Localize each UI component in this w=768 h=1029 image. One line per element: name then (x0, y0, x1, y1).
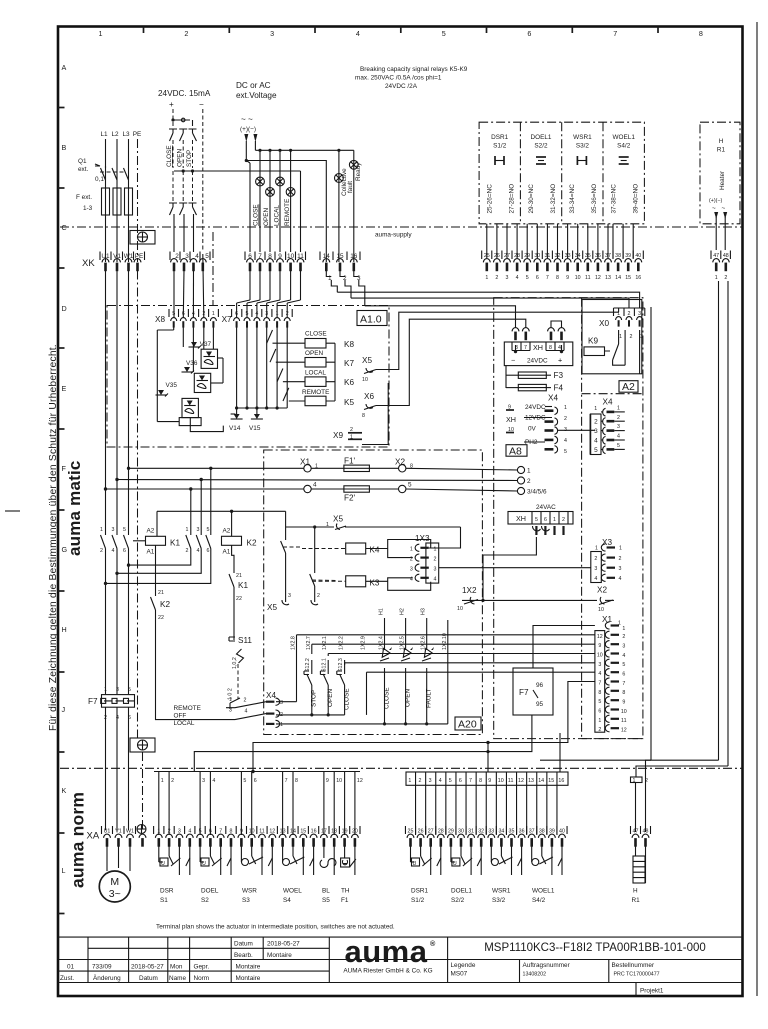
svg-text:L2: L2 (111, 131, 119, 138)
lamp LOCAL (276, 177, 285, 186)
svg-text:5: 5 (207, 527, 210, 533)
blinker BL S5 (320, 846, 336, 904)
svg-text:+: + (169, 100, 174, 109)
svg-text:A8: A8 (509, 445, 522, 457)
svg-text:S5: S5 (322, 897, 330, 904)
svg-text:10: 10 (621, 709, 627, 715)
svg-text:2: 2 (171, 778, 174, 784)
thermo TH F1 (341, 846, 356, 904)
separator line matic/norm (60, 767, 743, 769)
wire L1 (105, 139, 107, 262)
svg-text:R1: R1 (632, 897, 641, 904)
svg-text:Bearb.: Bearb. (234, 952, 253, 959)
wire X6 to XH7 (376, 319, 526, 405)
svg-text:29-30=NC: 29-30=NC (528, 184, 535, 214)
svg-text:8: 8 (556, 275, 559, 281)
XA terminals 25-40 (408, 829, 565, 835)
svg-text:DOEL1: DOEL1 (531, 134, 552, 141)
svg-text:6: 6 (598, 709, 601, 715)
svg-text:~ ~: ~ ~ (241, 115, 253, 124)
X9 exit wire (362, 383, 388, 445)
svg-text:Q1: Q1 (78, 158, 87, 165)
svg-text:1X2.8: 1X2.8 (291, 636, 297, 650)
svg-text:7: 7 (598, 681, 601, 687)
svg-text:2: 2 (317, 593, 320, 599)
motor M3~ (106, 846, 108, 871)
svg-text:V36: V36 (186, 360, 198, 367)
svg-text:3: 3 (116, 687, 119, 693)
svg-text:REMOTE: REMOTE (284, 199, 291, 226)
svg-text:6: 6 (527, 29, 531, 38)
svg-text:733/09: 733/09 (92, 963, 112, 970)
svg-text:S4/2: S4/2 (617, 143, 631, 150)
svg-text:S12.3: S12.3 (338, 658, 344, 672)
svg-text:9: 9 (598, 643, 601, 649)
svg-text:8: 8 (598, 690, 601, 696)
svg-text:MSP1110KC3--F18I2 TPA00R1BB-10: MSP1110KC3--F18I2 TPA00R1BB-101-000 (484, 942, 706, 954)
svg-text:OPEN: OPEN (177, 149, 184, 167)
svg-text:1: 1 (617, 406, 620, 412)
svg-text:F4: F4 (554, 384, 564, 393)
svg-text:13: 13 (528, 778, 534, 784)
svg-text:8: 8 (295, 778, 298, 784)
svg-text:auma norm: auma norm (68, 792, 88, 888)
title block row texts (60, 941, 300, 982)
svg-text:4: 4 (617, 434, 620, 440)
svg-text:31-32=NO: 31-32=NO (550, 184, 557, 214)
K2 contact rejoin wires (106, 549, 211, 584)
svg-text:6: 6 (123, 548, 126, 554)
heater wires down (718, 281, 720, 760)
svg-text:7: 7 (285, 778, 288, 784)
svg-text:1: 1 (564, 405, 567, 411)
relay coil K3 (346, 576, 366, 587)
fan wires to X1 (297, 635, 595, 672)
svg-text:X4: X4 (548, 394, 558, 403)
heater channel box (631, 777, 643, 783)
svg-text:F7: F7 (519, 688, 529, 697)
svg-text:B: B (62, 143, 67, 152)
limit switch WOEL S4 (283, 846, 314, 904)
XK terminals 6-11 (248, 253, 304, 260)
svg-text:6: 6 (536, 275, 539, 281)
arrow feeds (244, 134, 248, 142)
svg-text:S12.2: S12.2 (305, 658, 311, 672)
svg-text:Ready: Ready (355, 162, 362, 181)
svg-text:K1: K1 (238, 581, 248, 590)
svg-text:U: U (202, 861, 206, 867)
wire L2 (116, 139, 118, 262)
auma-supply separator line (60, 226, 743, 228)
lamp Ready (353, 150, 355, 262)
svg-text:3: 3 (429, 778, 432, 784)
svg-text:4: 4 (598, 671, 601, 677)
internal section divider dash-dot (212, 232, 214, 305)
wire + dashed (172, 109, 174, 120)
svg-text:33-34=NC: 33-34=NC (569, 184, 576, 214)
svg-text:9: 9 (566, 275, 569, 281)
svg-text:1: 1 (104, 687, 107, 693)
svg-text:15: 15 (548, 778, 554, 784)
limit switch WSR1 S3/2 (491, 846, 521, 904)
svg-text:REMOTE: REMOTE (174, 705, 201, 712)
svg-text:F3: F3 (554, 371, 564, 380)
svg-text:WOEL1: WOEL1 (532, 888, 555, 895)
svg-text:Mon: Mon (170, 963, 183, 970)
svg-text:WOEL1: WOEL1 (613, 134, 636, 141)
svg-text:1: 1 (619, 334, 622, 340)
svg-text:6: 6 (622, 672, 625, 678)
svg-text:U: U (413, 861, 417, 867)
svg-text:fault: fault (347, 181, 354, 193)
svg-text:X9: X9 (333, 431, 343, 440)
svg-text:1: 1 (280, 722, 283, 728)
wire 16 to XH pin3 (365, 306, 516, 328)
svg-text:F ext.: F ext. (76, 194, 92, 201)
svg-text:H2: H2 (400, 608, 406, 615)
X5 bottom contacts (285, 527, 287, 540)
svg-text:CLOSE: CLOSE (166, 145, 173, 167)
svg-text:2: 2 (434, 557, 437, 563)
limit switch WOEL1 S4/2 (532, 846, 562, 904)
fuse F3 (505, 366, 507, 388)
svg-text:2: 2 (594, 419, 598, 426)
svg-text:1-3: 1-3 (83, 205, 93, 212)
svg-text:4: 4 (439, 778, 442, 784)
svg-text:V15: V15 (249, 425, 261, 432)
svg-text:4: 4 (434, 577, 437, 583)
PE dash-dot down (137, 271, 139, 741)
svg-text:K2: K2 (160, 600, 170, 609)
limit switch DSR1 S1/2 (411, 846, 441, 904)
lamp bus 1 (255, 149, 353, 151)
svg-text:9: 9 (488, 778, 491, 784)
svg-text:9: 9 (622, 700, 625, 706)
svg-text:2018-05-27: 2018-05-27 (267, 941, 300, 948)
svg-text:DSR1: DSR1 (491, 134, 508, 141)
svg-text:LOCAL: LOCAL (174, 720, 195, 727)
svg-text:Datum: Datum (139, 975, 158, 982)
svg-text:22: 22 (158, 615, 164, 621)
svg-text:1: 1 (99, 29, 103, 38)
svg-text:1: 1 (527, 468, 531, 475)
svg-text:REMOTE: REMOTE (302, 389, 329, 396)
svg-text:1X2.7: 1X2.7 (306, 636, 312, 650)
svg-text:7: 7 (613, 29, 617, 38)
svg-text:D: D (62, 304, 67, 313)
A2 dash-dot region (494, 298, 643, 739)
wire 1X2 to X2 (478, 599, 597, 601)
svg-text:Zust.: Zust. (60, 975, 74, 982)
svg-text:TH: TH (341, 888, 350, 895)
channel box right group (406, 772, 568, 785)
svg-text:OPEN: OPEN (327, 689, 334, 707)
svg-text:1X2.9: 1X2.9 (361, 636, 367, 650)
svg-text:2: 2 (564, 416, 567, 422)
svg-text:K3: K3 (369, 579, 379, 588)
K4/K3 wiring to 1X3 (366, 540, 431, 558)
svg-text:F7: F7 (88, 697, 98, 706)
svg-text:4: 4 (594, 576, 597, 582)
svg-text:LOCAL: LOCAL (274, 205, 281, 226)
svg-text:1: 1 (619, 546, 622, 552)
outer sheet edge right (756, 22, 758, 996)
svg-text:5: 5 (449, 778, 452, 784)
ground box above norm separator (130, 738, 155, 752)
wires from relay boxes to terminals 25-40 (487, 224, 633, 258)
svg-text:2018-05-27: 2018-05-27 (131, 963, 164, 970)
24VAC output circles (517, 466, 524, 473)
riser 1X2.6 H3 (426, 618, 428, 650)
svg-text:S12.1: S12.1 (321, 658, 327, 672)
svg-text:S2: S2 (201, 897, 209, 904)
svg-text:10: 10 (498, 778, 504, 784)
wire 8 feed from above (485, 772, 487, 785)
svg-text:DSR1: DSR1 (411, 888, 428, 895)
svg-text:2: 2 (724, 275, 727, 281)
svg-text:auma: auma (345, 934, 428, 969)
contactor K1 main contacts (100, 527, 126, 554)
svg-text:12: 12 (597, 634, 603, 640)
svg-text:3: 3 (594, 428, 598, 435)
svg-text:21: 21 (236, 573, 242, 579)
svg-text:2: 2 (598, 727, 601, 733)
svg-text:5: 5 (205, 253, 209, 260)
svg-text:3: 3 (617, 424, 620, 430)
riser 1X2.4 H1 (384, 618, 386, 650)
wires XK 2-5 down into X8 (174, 254, 204, 318)
svg-text:Norm: Norm (194, 975, 210, 982)
limit switch DOEL S2 (200, 846, 231, 904)
svg-text:39-40=NO: 39-40=NO (632, 184, 639, 214)
svg-text:1X2.1: 1X2.1 (322, 636, 328, 650)
svg-text:U: U (161, 861, 165, 867)
svg-text:2: 2 (622, 634, 625, 640)
svg-text:3: 3 (112, 527, 115, 533)
svg-text:8: 8 (362, 413, 365, 419)
lamp REMOTE (286, 188, 295, 197)
svg-text:4: 4 (516, 275, 519, 281)
svg-text:8: 8 (479, 778, 482, 784)
svg-text:X2: X2 (597, 586, 607, 595)
wires XK 6-11 down into X7 (237, 271, 301, 319)
svg-text:X4: X4 (603, 398, 613, 407)
limit switch DSR S1 (159, 846, 190, 904)
svg-text:7: 7 (469, 778, 472, 784)
signal relay boxes DSR1/DOEL1/WSR1/WOEL1 (479, 122, 644, 224)
svg-text:V37: V37 (200, 341, 212, 348)
svg-text:ext.: ext. (78, 166, 89, 173)
phase wires below contacts (106, 549, 129, 695)
svg-text:Montaire: Montaire (236, 975, 261, 982)
left margin mark (5, 510, 20, 512)
svg-text:13: 13 (605, 275, 611, 281)
svg-text:5: 5 (622, 662, 625, 668)
svg-text:1: 1 (485, 275, 488, 281)
svg-text:A: A (62, 63, 67, 72)
lamp wires 6-11 (246, 161, 250, 164)
XA labels U1 V1 W1 PE (104, 829, 134, 835)
X1 row7 wire (253, 682, 595, 773)
svg-text:2: 2 (630, 334, 633, 340)
svg-text:Für diese Zeichnung gelten die: Für diese Zeichnung gelten die Bestimmun… (48, 344, 59, 731)
title block grid (58, 936, 743, 938)
svg-text:25-26=NC: 25-26=NC (487, 184, 494, 214)
heater wires elbow (636, 766, 728, 777)
svg-text:37-38=NC: 37-38=NC (610, 184, 617, 214)
svg-text:XH: XH (533, 343, 543, 352)
svg-text:A2: A2 (622, 381, 635, 393)
svg-text:16: 16 (635, 275, 641, 281)
svg-text:S3: S3 (242, 897, 250, 904)
svg-text:1: 1 (598, 718, 601, 724)
svg-text:10: 10 (457, 606, 463, 612)
svg-text:M: M (110, 876, 119, 888)
channel top rail left (154, 771, 360, 773)
XA terminals 47 48 (633, 829, 649, 835)
svg-text:MS07: MS07 (451, 971, 468, 978)
svg-text:3: 3 (598, 662, 601, 668)
heater terminals 47 48 (713, 253, 729, 259)
svg-text:K7: K7 (344, 359, 354, 368)
svg-text:6: 6 (544, 517, 547, 523)
svg-text:WSR1: WSR1 (492, 888, 511, 895)
svg-text:27-28=NO: 27-28=NO (509, 184, 516, 214)
svg-text:K5: K5 (344, 398, 354, 407)
svg-text:H: H (62, 625, 67, 634)
V3x interconnect wires (157, 328, 223, 432)
XK right terminals 25-40 (484, 253, 641, 259)
svg-text:K: K (62, 786, 67, 795)
bus row2 (115, 478, 118, 481)
top column ticks (144, 27, 659, 34)
svg-text:K2: K2 (247, 539, 257, 548)
row labels (62, 63, 68, 875)
LED bus (276, 723, 448, 725)
svg-text:CLOSE: CLOSE (253, 204, 260, 226)
XK 14-16 bottom numbers 1 2 3 with bracket wires (328, 275, 361, 282)
svg-text:21: 21 (158, 590, 164, 596)
lamp bus 2 to terminal 14 (245, 159, 248, 162)
svg-text:S1/2: S1/2 (493, 143, 507, 150)
svg-text:1: 1 (553, 517, 556, 523)
svg-text:K4: K4 (369, 546, 379, 555)
svg-text:5: 5 (442, 29, 446, 38)
svg-text:3: 3 (410, 567, 413, 573)
svg-text:2: 2 (186, 548, 189, 554)
relay coil K4 (346, 543, 366, 554)
24VAC drop wires (483, 537, 536, 565)
svg-text:X3: X3 (602, 538, 612, 547)
bus to lamps row (0V) (174, 170, 301, 172)
svg-text:4: 4 (594, 437, 598, 444)
svg-text:(+)(−): (+)(−) (709, 198, 722, 204)
push buttons CLOSE OPEN STOP (row1) (169, 122, 197, 168)
riser 1X2.1 (327, 654, 329, 657)
svg-text:35-36=NO: 35-36=NO (591, 184, 598, 214)
svg-text:X5: X5 (333, 515, 343, 524)
svg-text:X6: X6 (364, 392, 374, 401)
K2 feed drops (190, 489, 192, 535)
svg-text:DOEL1: DOEL1 (451, 888, 472, 895)
svg-text:10: 10 (575, 275, 581, 281)
svg-text:Terminal plan shows the actuat: Terminal plan shows the actuator in inte… (156, 924, 395, 931)
S12 bus (276, 714, 345, 716)
svg-text:~: ~ (712, 205, 716, 212)
svg-text:Gepr.: Gepr. (194, 963, 210, 970)
svg-text:3: 3 (202, 778, 205, 784)
svg-text:2: 2 (619, 556, 622, 562)
svg-text:1: 1 (100, 527, 103, 533)
svg-text:10: 10 (598, 607, 604, 613)
0V wire to X4 right (557, 429, 595, 431)
svg-text:95: 95 (536, 701, 544, 708)
svg-text:H: H (633, 888, 638, 895)
svg-text:STOP: STOP (186, 150, 193, 167)
svg-text:3: 3 (619, 566, 622, 572)
svg-text:1: 1 (595, 546, 598, 552)
svg-text:2: 2 (244, 698, 247, 704)
svg-text:3: 3 (280, 700, 283, 706)
svg-text:3: 3 (288, 593, 291, 599)
phase wires to XA (106, 707, 129, 830)
svg-text:1: 1 (410, 547, 413, 553)
svg-text:1X2.2: 1X2.2 (339, 636, 345, 650)
svg-text:X4: X4 (266, 691, 276, 700)
svg-text:−: − (511, 356, 515, 365)
opto coupler V37 (189, 328, 218, 369)
svg-text:S2/2: S2/2 (534, 143, 548, 150)
svg-text:0V: 0V (528, 426, 537, 433)
svg-text:3: 3 (506, 275, 509, 281)
svg-text:12: 12 (595, 275, 601, 281)
XH 8/4 bridge (551, 321, 562, 328)
svg-text:Name: Name (169, 975, 186, 982)
coil bus to X5/X6 (326, 343, 335, 401)
svg-text:12: 12 (357, 778, 363, 784)
svg-text:S11: S11 (238, 636, 252, 645)
svg-text:+: + (558, 356, 562, 365)
svg-text:4: 4 (313, 482, 317, 489)
svg-text:10: 10 (336, 778, 342, 784)
opto coupler V35 (156, 382, 202, 426)
svg-text:S4: S4 (283, 897, 291, 904)
wire 15 to X0 pin2 (351, 298, 629, 308)
phase wire U1 (105, 271, 107, 536)
svg-text:K1: K1 (170, 539, 180, 548)
svg-text:6: 6 (207, 548, 210, 554)
svg-text:A1.0: A1.0 (360, 314, 382, 326)
svg-text:XH: XH (516, 514, 526, 523)
XK pills U1 V1 W1 PE (102, 259, 109, 272)
svg-text:H: H (719, 138, 724, 145)
solid partition line right column (650, 307, 652, 760)
svg-text:DSR: DSR (160, 888, 174, 895)
svg-text:3: 3 (270, 29, 274, 38)
svg-text:A1: A1 (223, 549, 231, 556)
svg-text:5: 5 (128, 687, 131, 693)
svg-text:S3/2: S3/2 (576, 143, 590, 150)
svg-text:8: 8 (549, 345, 552, 351)
svg-text:F1': F1' (344, 457, 356, 466)
svg-text:Montaire: Montaire (236, 963, 261, 970)
svg-text:4: 4 (619, 576, 622, 582)
svg-text:PRC TC170000477: PRC TC170000477 (614, 972, 660, 978)
svg-text:4: 4 (622, 653, 625, 659)
svg-text:BL: BL (322, 888, 330, 895)
svg-text:13408202: 13408202 (523, 972, 547, 978)
svg-text:96: 96 (536, 682, 544, 689)
